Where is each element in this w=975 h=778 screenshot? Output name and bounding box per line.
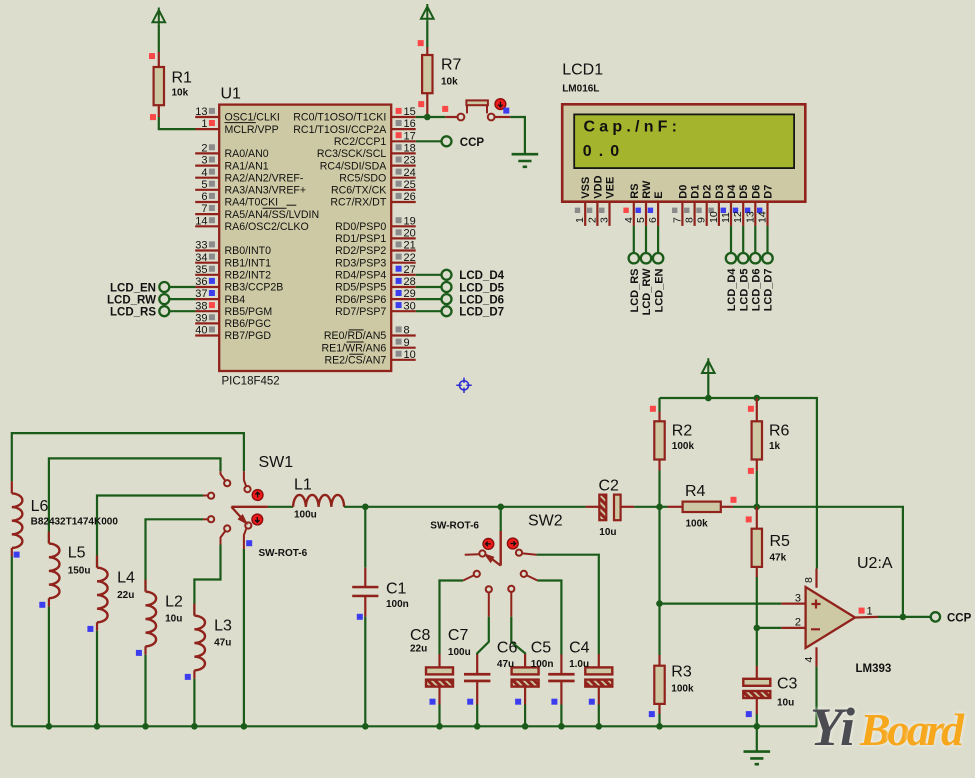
svg-text:39: 39 [195,313,207,325]
LCD1 pin 5 RW [635,180,653,226]
capacitor C4 [569,640,612,727]
svg-text:100n: 100n [386,599,409,610]
svg-text:LM393: LM393 [856,663,892,675]
SW2 rotate button right [507,538,518,549]
svg-text:MCLR/VPP: MCLR/VPP [225,124,279,136]
resistor R4 [660,483,757,530]
svg-text:8: 8 [684,217,696,223]
U1 pin 28 RD5/PSP5 [335,276,416,294]
svg-text:R2: R2 [672,423,693,440]
terminal LCD_D7 at U1 [416,306,504,318]
svg-text:D7: D7 [763,185,775,199]
inductor L5 [49,531,91,726]
svg-text:LCD_RW: LCD_RW [107,294,156,306]
wire L1 to C1/SW2/C2 [344,506,585,508]
marker C3 bottom [746,711,752,717]
LCD1 pin 10 D3 [708,185,726,226]
resistor R5 [752,507,790,577]
junction pin2/C3 [754,625,761,632]
junction C1 bus [362,723,369,730]
inductor L4 [97,556,135,727]
svg-text:RC1/T1OSI/CCP2A: RC1/T1OSI/CCP2A [293,124,387,136]
svg-text:1: 1 [574,217,586,223]
LCD1 pin 2 VDD [586,175,604,225]
terminal LCD_RW below LCD [641,226,653,315]
junction R6 top [754,395,761,402]
svg-text:47u: 47u [214,638,231,649]
U1 pin 2 RA0/AN0 [195,143,269,161]
svg-text:RS: RS [629,183,641,198]
capacitor C3 [743,666,797,726]
svg-text:9: 9 [404,337,410,349]
junction L3 bus [191,723,198,730]
marker R7 bottom [418,101,424,107]
svg-text:RB1/INT1: RB1/INT1 [225,257,272,269]
svg-text:RB0/INT0: RB0/INT0 [225,245,272,257]
wire net SW1 pos4 [146,519,204,591]
terminal LCD_D6 at U1 [416,294,504,306]
U1 overline SS [263,207,287,209]
svg-text:10: 10 [404,349,416,361]
svg-text:VSS: VSS [580,177,592,199]
svg-text:C1: C1 [386,581,407,598]
svg-text:1.0u: 1.0u [569,659,589,670]
junction C5 bus [558,723,565,730]
wire U1 pin15 to button [416,116,446,118]
wire R2 to junction [658,471,660,507]
wire top-left net (SW1 pos1) [12,433,244,481]
SW2 rotate button left [483,539,494,550]
junction C6 bus [522,723,529,730]
svg-text:C6: C6 [497,640,518,657]
wire opamp pin4 to bus [815,667,817,727]
U1 pin 20 RD1/PSP1 [335,228,416,246]
svg-text:L2: L2 [165,594,183,611]
svg-text:D3: D3 [714,185,726,199]
svg-text:U2:A: U2:A [857,555,893,572]
svg-text:LCD_D6: LCD_D6 [459,294,504,306]
svg-text:4: 4 [623,217,635,223]
marker C7 [467,699,473,705]
svg-text:RB6/PGC: RB6/PGC [225,318,272,330]
svg-text:RC3/SCK/SCL: RC3/SCK/SCL [317,148,387,160]
svg-text:D0: D0 [677,185,689,199]
terminal CCP at U1 pin17 [416,136,485,149]
svg-text:2: 2 [586,217,598,223]
LCD1 label [562,62,603,95]
svg-text:37: 37 [195,288,207,300]
svg-text:SW2: SW2 [528,513,563,530]
U1 pin 23 RC4/SDI/SDA [320,155,416,173]
LCD1 pin 1 VSS [574,177,592,226]
terminal LCD_EN at U1 [110,282,195,294]
svg-text:RC4/SDI/SDA: RC4/SDI/SDA [320,160,387,172]
wire R4 to output node [757,507,903,617]
junction SW1 bus [241,723,248,730]
inductor L1 [268,477,344,521]
marker button left [442,106,448,112]
LCD1 pin 7 D0 [671,185,689,226]
svg-text:4: 4 [201,167,207,179]
svg-text:10k: 10k [172,88,189,99]
U1 pin 40 RB7/PGD [195,325,271,343]
junction L4 bus [94,723,101,730]
junction R4 right [754,504,761,511]
svg-text:27: 27 [404,264,416,276]
wire R2 top drop [658,398,660,412]
svg-text:36: 36 [195,276,207,288]
marker R4 right [731,497,737,503]
svg-text:LCD_D6: LCD_D6 [751,269,763,312]
resistor R6 [752,398,790,471]
svg-text:RE2/CS/AN7: RE2/CS/AN7 [324,355,386,367]
svg-text:OSC1/CLKI: OSC1/CLKI [225,112,280,124]
svg-text:LCD_D4: LCD_D4 [459,270,504,282]
bottom ground bus wire [12,725,817,727]
wire SW2 pos4 to C5 [538,581,562,656]
svg-text:2: 2 [201,143,207,155]
wire net SW1 pos3 [97,496,203,568]
junction L5 bus [46,723,53,730]
wire SW2 pos3 to C8 [440,581,464,655]
svg-text:16: 16 [404,118,416,130]
push button [445,100,510,120]
svg-text:1: 1 [201,118,207,130]
wire R1 to U1 pin1 MCLR [159,117,196,129]
capacitor C7 [448,627,491,726]
svg-text:28: 28 [404,276,416,288]
terminal CCP output [931,612,972,624]
ground near button [512,154,539,167]
marker R7 top [418,40,424,46]
svg-text:14: 14 [195,215,207,227]
U1 pin 17 RC2/CCP1 [334,130,416,148]
svg-text:35: 35 [195,264,207,276]
junction C3 bus [754,723,761,730]
svg-text:RA3/AN3/VREF+: RA3/AN3/VREF+ [225,185,307,197]
LCD1 pin 6 E [647,191,665,226]
SW1 rotate button down [252,514,263,525]
LCD1 pin 13 D6 [744,185,762,226]
svg-text:1k: 1k [769,441,781,452]
capacitor C8 [410,627,453,726]
LCD1 screen [574,114,794,168]
LCD1 pin 8 D1 [684,185,702,226]
U1 pin 30 RD7/PSP7 [335,300,416,318]
op-amp U2:A LM393 [781,555,893,675]
switch SW1 rotary SW-ROT-6 [203,454,308,559]
marker C4 [589,699,595,705]
capacitor C1 [352,507,409,727]
junction L2 bus [142,723,149,730]
junction C7 bus [474,723,481,730]
marker opamp out [859,608,865,614]
U1 pin 14 RA6/OSC2/CLKO [195,215,309,233]
U1 pin 18 RC3/SCK/SCL [317,143,416,161]
svg-text:L5: L5 [68,545,86,562]
svg-text:100u: 100u [448,647,471,658]
svg-text:R1: R1 [172,70,193,87]
terminal LCD_RW at U1 [107,294,195,306]
wire node to R3 [658,604,660,655]
svg-text:RB2/INT2: RB2/INT2 [225,270,272,282]
U1 pin 33 RB0/INT0 [195,240,271,258]
svg-text:CCP: CCP [947,612,972,624]
terminal LCD_D4 at U1 [416,270,505,282]
terminal LCD_D5 below LCD [738,226,750,311]
svg-text:RC6/TX/CK: RC6/TX/CK [331,185,386,197]
svg-text:40: 40 [195,325,207,337]
svg-text:RE1/WR/AN6: RE1/WR/AN6 [322,342,387,354]
U1 pin 24 RC5/SDO [339,167,416,185]
svg-text:24: 24 [404,167,416,179]
svg-text:9: 9 [696,217,708,223]
power symbol right [702,358,715,398]
resistor R1 [154,52,192,117]
svg-text:21: 21 [404,240,416,252]
U1 pin 13 OSC1/CLKI [195,106,280,124]
svg-text:L4: L4 [117,570,135,587]
svg-text:RD5/PSP5: RD5/PSP5 [335,282,386,294]
marker R1 bottom [150,114,156,120]
junction pin15/R7/button [424,114,431,121]
svg-text:SW-ROT-6: SW-ROT-6 [259,548,308,559]
U1 pin 9 RE1/WR/AN6 [322,337,416,355]
inductor L6 [12,481,119,726]
IC U1 PIC18F452 body [219,86,391,388]
capacitor C6 [497,640,539,727]
terminal LCD_D6 below LCD [750,226,762,311]
svg-text:RW: RW [641,180,653,199]
terminal LCD_D5 at U1 [416,282,505,294]
U1 pin 8 RE0/RD/AN5 [324,325,416,343]
svg-text:5: 5 [635,217,647,223]
U1 pin 22 RD3/PSP3 [335,252,416,270]
svg-text:3: 3 [599,217,611,223]
U1 pin 21 RD2/PSP2 [335,240,416,258]
svg-text:7: 7 [671,217,683,223]
LCD1 pin 11 D4 [720,184,738,226]
svg-text:RA0/AN0: RA0/AN0 [225,148,269,160]
svg-text:RB4: RB4 [225,294,246,306]
svg-text:33: 33 [195,240,207,252]
svg-text:C7: C7 [448,627,469,644]
switch SW2 rotary SW-ROT-6 [430,507,562,617]
marker R6 top [748,406,754,412]
svg-text:R6: R6 [769,423,790,440]
U1 overline CS pin10 [349,353,363,355]
svg-text:VEE: VEE [605,177,617,199]
wire output to CCP [878,616,931,618]
svg-text:38: 38 [195,300,207,312]
svg-text:5: 5 [201,179,207,191]
svg-text:RC7/RX/DT: RC7/RX/DT [330,197,386,209]
svg-text:Board: Board [859,704,965,755]
svg-text:23: 23 [404,155,416,167]
svg-text:6: 6 [647,217,659,223]
U1 overline T0CKI tail [287,204,297,206]
svg-text:RD7/PSP7: RD7/PSP7 [335,306,386,318]
wire top rail right [660,398,817,569]
ground symbol bottom [744,726,771,764]
svg-text:SW1: SW1 [259,454,294,471]
svg-text:18: 18 [404,143,416,155]
svg-text:RD6/PSP6: RD6/PSP6 [335,294,386,306]
svg-text:PIC18F452: PIC18F452 [222,376,280,388]
svg-text:D1: D1 [690,185,702,199]
power symbol above R1 [153,8,166,53]
svg-text:RE0/RD/AN5: RE0/RD/AN5 [324,330,387,342]
wire pin2 node down to C3 [756,628,758,666]
SW1 rotate button up [252,490,263,501]
origin crosshair marker [456,378,471,393]
svg-text:29: 29 [404,288,416,300]
wire R2/R3 node to opamp pin3 [660,507,782,604]
svg-text:RD2/PSP2: RD2/PSP2 [335,245,386,257]
svg-text:22: 22 [404,252,416,264]
U1 pin 27 RD4/PSP4 [335,264,416,282]
svg-text:RC0/T1OSO/T1CKI: RC0/T1OSO/T1CKI [293,112,386,124]
svg-text:3: 3 [201,155,207,167]
marker R1 top [149,53,155,59]
svg-text:C8: C8 [410,627,431,644]
svg-text:R4: R4 [685,483,706,500]
svg-text:10u: 10u [165,614,182,625]
svg-text:E: E [653,191,665,198]
inductor L3 [194,604,232,727]
svg-text:10k: 10k [441,77,458,88]
svg-text:CCP: CCP [460,137,485,149]
svg-text:13: 13 [744,211,756,223]
svg-text:D2: D2 [702,185,714,199]
svg-text:14: 14 [757,211,769,223]
svg-text:10: 10 [708,211,720,223]
wire SW2 pos6 to C6 [511,617,525,654]
terminal LCD_EN below LCD [653,226,665,313]
junction pin3 wire [656,600,663,607]
wire R6 to R4 junction [756,471,758,507]
svg-text:22u: 22u [117,590,134,601]
svg-text:34: 34 [195,252,207,264]
U1 pin 4 RA2/AN2/VREF- [195,167,304,185]
svg-text:12: 12 [732,211,744,223]
svg-text:15: 15 [404,106,416,118]
wire pin2 node to opamp [757,627,782,629]
svg-text:LCD_RW: LCD_RW [641,268,653,315]
svg-text:LCD_RS: LCD_RS [629,269,641,313]
svg-text:D4: D4 [726,184,738,199]
junction output [900,614,907,621]
svg-text:100k: 100k [672,441,695,452]
U1 overline WR pin9 [347,341,364,343]
capacitor C5 [531,640,575,727]
terminal LCD_D7 below LCD [762,226,774,311]
junction C8 bus [436,723,443,730]
wire net SW1 pos5 to L3 [194,545,220,616]
svg-text:RC2/CCP1: RC2/CCP1 [334,136,387,148]
marker C5 [551,699,557,705]
LCD1 pin 9 D2 [696,185,714,226]
terminal LCD_D4 below LCD [726,226,738,311]
svg-text:19: 19 [404,215,416,227]
svg-text:2: 2 [795,617,801,629]
svg-text:LCD_EN: LCD_EN [653,268,665,312]
marker C1 [357,614,363,620]
U1 pin 5 RA3/AN3/VREF+ [195,179,306,197]
svg-text:22u: 22u [410,644,427,655]
svg-text:RA4/T0CKI: RA4/T0CKI [225,197,279,209]
LCD1 pin 12 D5 [732,185,750,226]
svg-text:8: 8 [404,325,410,337]
marker L3 [185,674,191,680]
U1 pin 7 RA5/AN4/SS/LVDIN [195,203,319,221]
svg-text:C2: C2 [599,478,620,495]
U1 pin 38 RB5/PGM [195,300,272,318]
svg-text:1: 1 [867,606,873,618]
svg-text:RD4/PSP4: RD4/PSP4 [335,270,386,282]
U1 pin 10 RE2/CS/AN7 [324,349,415,367]
U1 pin 1 MCLR/VPP [195,118,278,136]
svg-text:RB7/PGD: RB7/PGD [225,330,272,342]
svg-text:25: 25 [404,179,416,191]
U1 pin 36 RB3/CCP2B [195,276,283,294]
svg-text:Yi: Yi [810,697,855,757]
wire button to ground [510,117,525,153]
svg-text:LCD_EN: LCD_EN [110,282,156,294]
U1 pin 25 RC6/TX/CK [331,179,416,197]
U1 pin 34 RB1/INT1 [195,252,271,270]
junction R3 bus [656,723,663,730]
svg-text:47k: 47k [770,553,787,564]
svg-text:17: 17 [404,130,416,142]
svg-text:D5: D5 [738,185,750,199]
svg-text:RA1/AN1: RA1/AN1 [225,160,269,172]
svg-text:C5: C5 [531,640,552,657]
svg-text:LCD_D7: LCD_D7 [763,269,775,312]
wire net SW1 pos2 [49,458,221,543]
svg-text:D6: D6 [750,185,762,199]
U1 pin 39 RB6/PGC [195,313,271,331]
svg-text:U1: U1 [221,86,242,103]
junction SW2 pole [497,504,504,511]
wire SW2 pos2 to C4 [537,555,599,654]
YiBoard watermark [810,697,965,757]
wire SW1 common to bus [243,549,245,726]
svg-text:8: 8 [803,577,815,583]
svg-text:R3: R3 [671,664,692,681]
svg-text:L6: L6 [31,498,49,515]
U1 pin 37 RB4 [195,288,245,306]
svg-text:6: 6 [201,191,207,203]
marker R3 bottom [649,711,655,717]
svg-text:RD3/PSP3: RD3/PSP3 [335,257,386,269]
junction C4 bus [596,723,603,730]
svg-text:L3: L3 [214,618,232,635]
U1 pin 6 RA4/T0CKI [195,191,278,209]
button actuate symbol [495,99,506,110]
svg-text:20: 20 [404,228,416,240]
capacitor C2 [586,478,660,538]
resistor R7 [422,47,461,117]
svg-text:RC5/SDO: RC5/SDO [339,172,386,184]
terminal LCD_RS below LCD [629,226,641,313]
svg-text:LCD_D5: LCD_D5 [738,269,750,312]
svg-text:4: 4 [803,657,815,663]
svg-text:100u: 100u [294,510,317,521]
marker C6 [515,699,521,705]
junction power arrow [705,395,712,402]
power symbol above R7 [421,4,434,47]
